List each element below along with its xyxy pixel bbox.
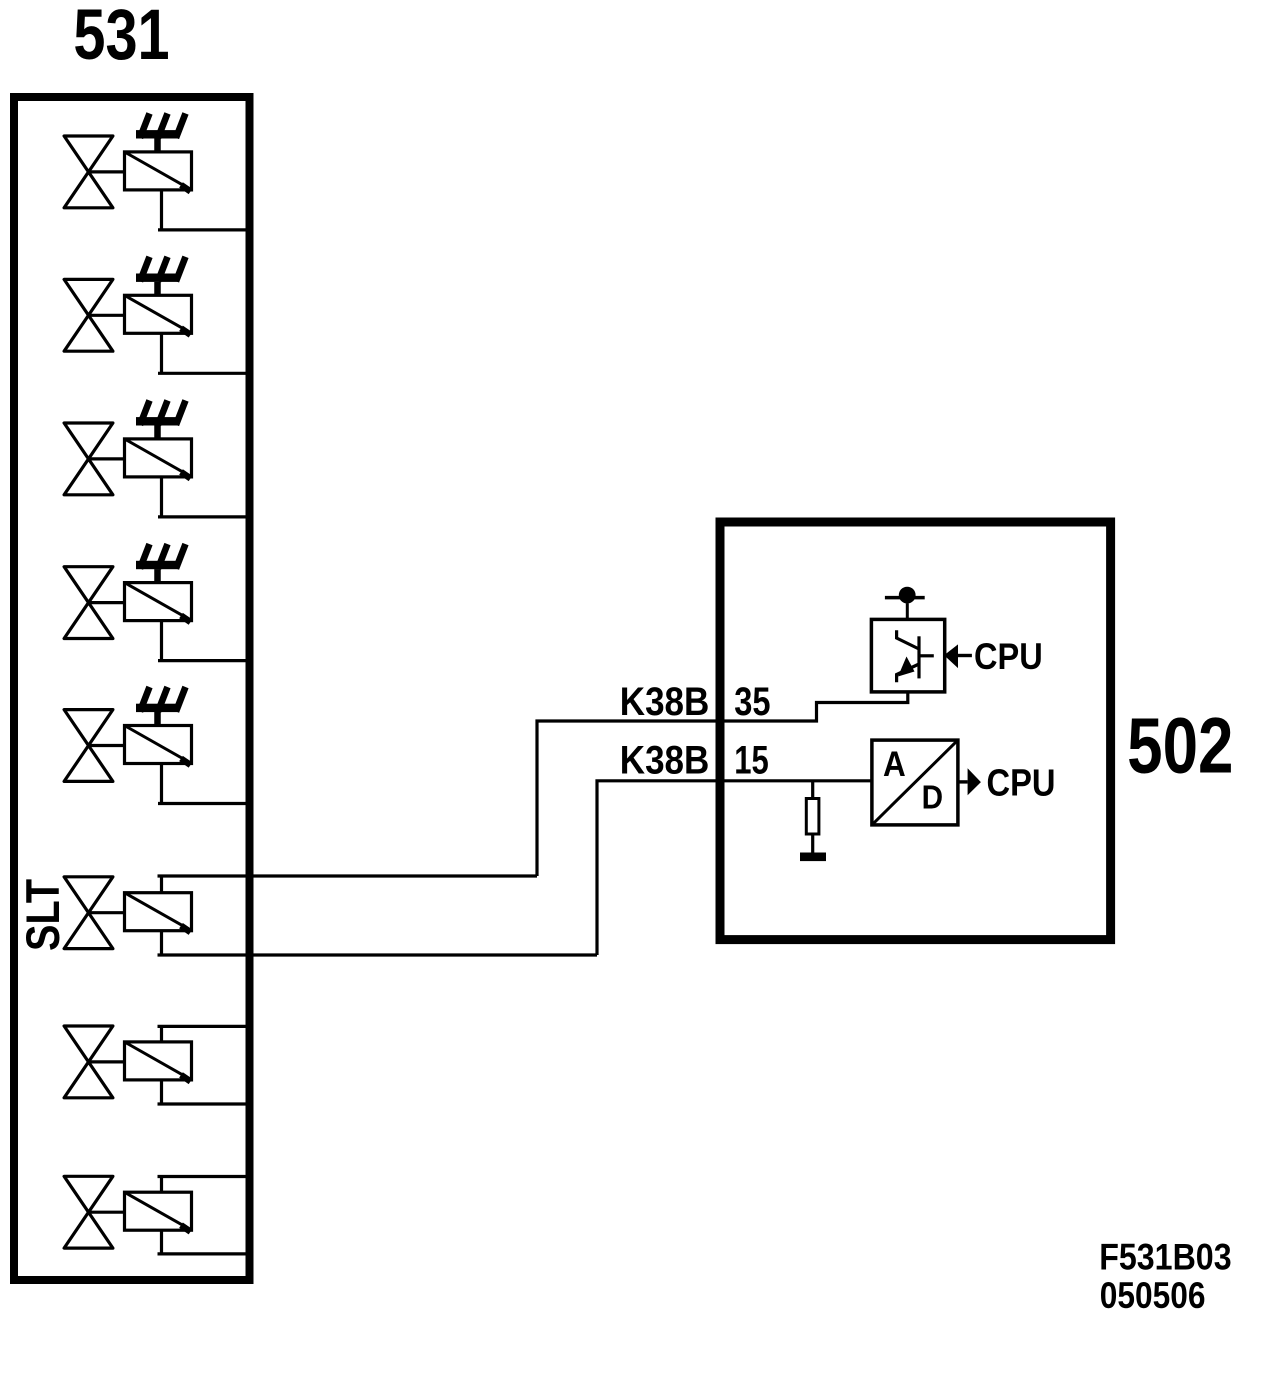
svg-text:K38B: K38B [620,679,710,724]
svg-text:531: 531 [73,0,169,74]
solenoid coil L5 [125,726,192,766]
valve V6 (two-triangle valve symbol) [64,877,113,949]
wire resistor to ground [811,834,814,853]
wire coil L7 top terminal [158,1026,248,1042]
svg-text:A: A [883,745,906,784]
solenoid coil L2 [125,295,192,335]
wire coil L4 to box edge [158,621,247,661]
chassis ground G5 [136,687,186,726]
solenoid coil L3 [125,439,192,479]
wire coil L6 bottom terminal [158,931,598,955]
chassis ground G3 [136,400,186,439]
wire K38B 35 (SLT top to transistor) [537,691,908,876]
chassis ground G4 [136,544,186,583]
solenoid coil L6 [125,893,192,933]
valve V7 (two-triangle valve symbol) [64,1026,113,1098]
valve V5 (two-triangle valve symbol) [64,710,113,782]
wire coil L8 top terminal [158,1177,248,1193]
solenoid coil L1 [125,152,192,192]
wire valve V6 to coil [89,911,125,914]
control unit box 502 outline [720,522,1111,940]
chassis ground G2 [136,257,186,296]
solenoid coil L4 [125,583,192,623]
svg-text:CPU: CPU [987,761,1056,804]
svg-text:15: 15 [734,738,769,783]
wire valve V1 to coil [89,170,125,173]
wire K38B 15 (SLT bottom to A/D) [597,781,872,955]
wire valve V3 to coil [89,457,125,460]
svg-text:F531B03: F531B03 [1099,1238,1231,1278]
wire coil L6 top terminal [158,876,538,893]
svg-text:SLT: SLT [17,879,70,951]
svg-text:D: D [922,779,943,816]
svg-text:35: 35 [734,679,770,724]
ground bar [800,853,826,862]
svg-text:502: 502 [1127,702,1233,790]
valve V4 (two-triangle valve symbol) [64,567,113,639]
valve V1 (two-triangle valve symbol) [64,136,113,208]
solenoid coil L7 [125,1042,192,1082]
solenoid coil L8 [125,1192,192,1232]
wire coil L8 bottom terminal [158,1230,248,1254]
wire valve V5 to coil [89,744,125,747]
wire valve V4 to coil [89,601,125,604]
wire coil L3 to box edge [158,477,247,517]
valve V3 (two-triangle valve symbol) [64,423,113,495]
transistor Q1 (output driver in box) [871,619,944,692]
svg-text:K38B: K38B [620,737,710,782]
wire coil L5 to box edge [158,764,247,804]
resistor R1 [806,799,819,835]
svg-text:CPU: CPU [974,636,1043,677]
valve V2 (two-triangle valve symbol) [64,279,113,351]
wire valve V7 to coil [89,1060,125,1063]
component box 531 (valve block outline) [14,97,250,1280]
arrow CPU into transistor [944,644,972,668]
wire coil L2 to box edge [158,333,247,373]
wire coil L7 bottom terminal [158,1080,248,1104]
valve V8 (two-triangle valve symbol) [64,1176,113,1248]
supply dot node above transistor [885,587,925,620]
wire coil L1 to box edge [158,190,247,230]
wire valve V2 to coil [89,314,125,317]
svg-text:050506: 050506 [1100,1276,1206,1317]
arrow A/D to CPU [958,768,981,795]
wire valve V8 to coil [89,1211,125,1214]
A/D converter U1 [872,740,958,825]
wire to resistor R1 [811,781,814,799]
chassis ground G1 [136,113,186,151]
